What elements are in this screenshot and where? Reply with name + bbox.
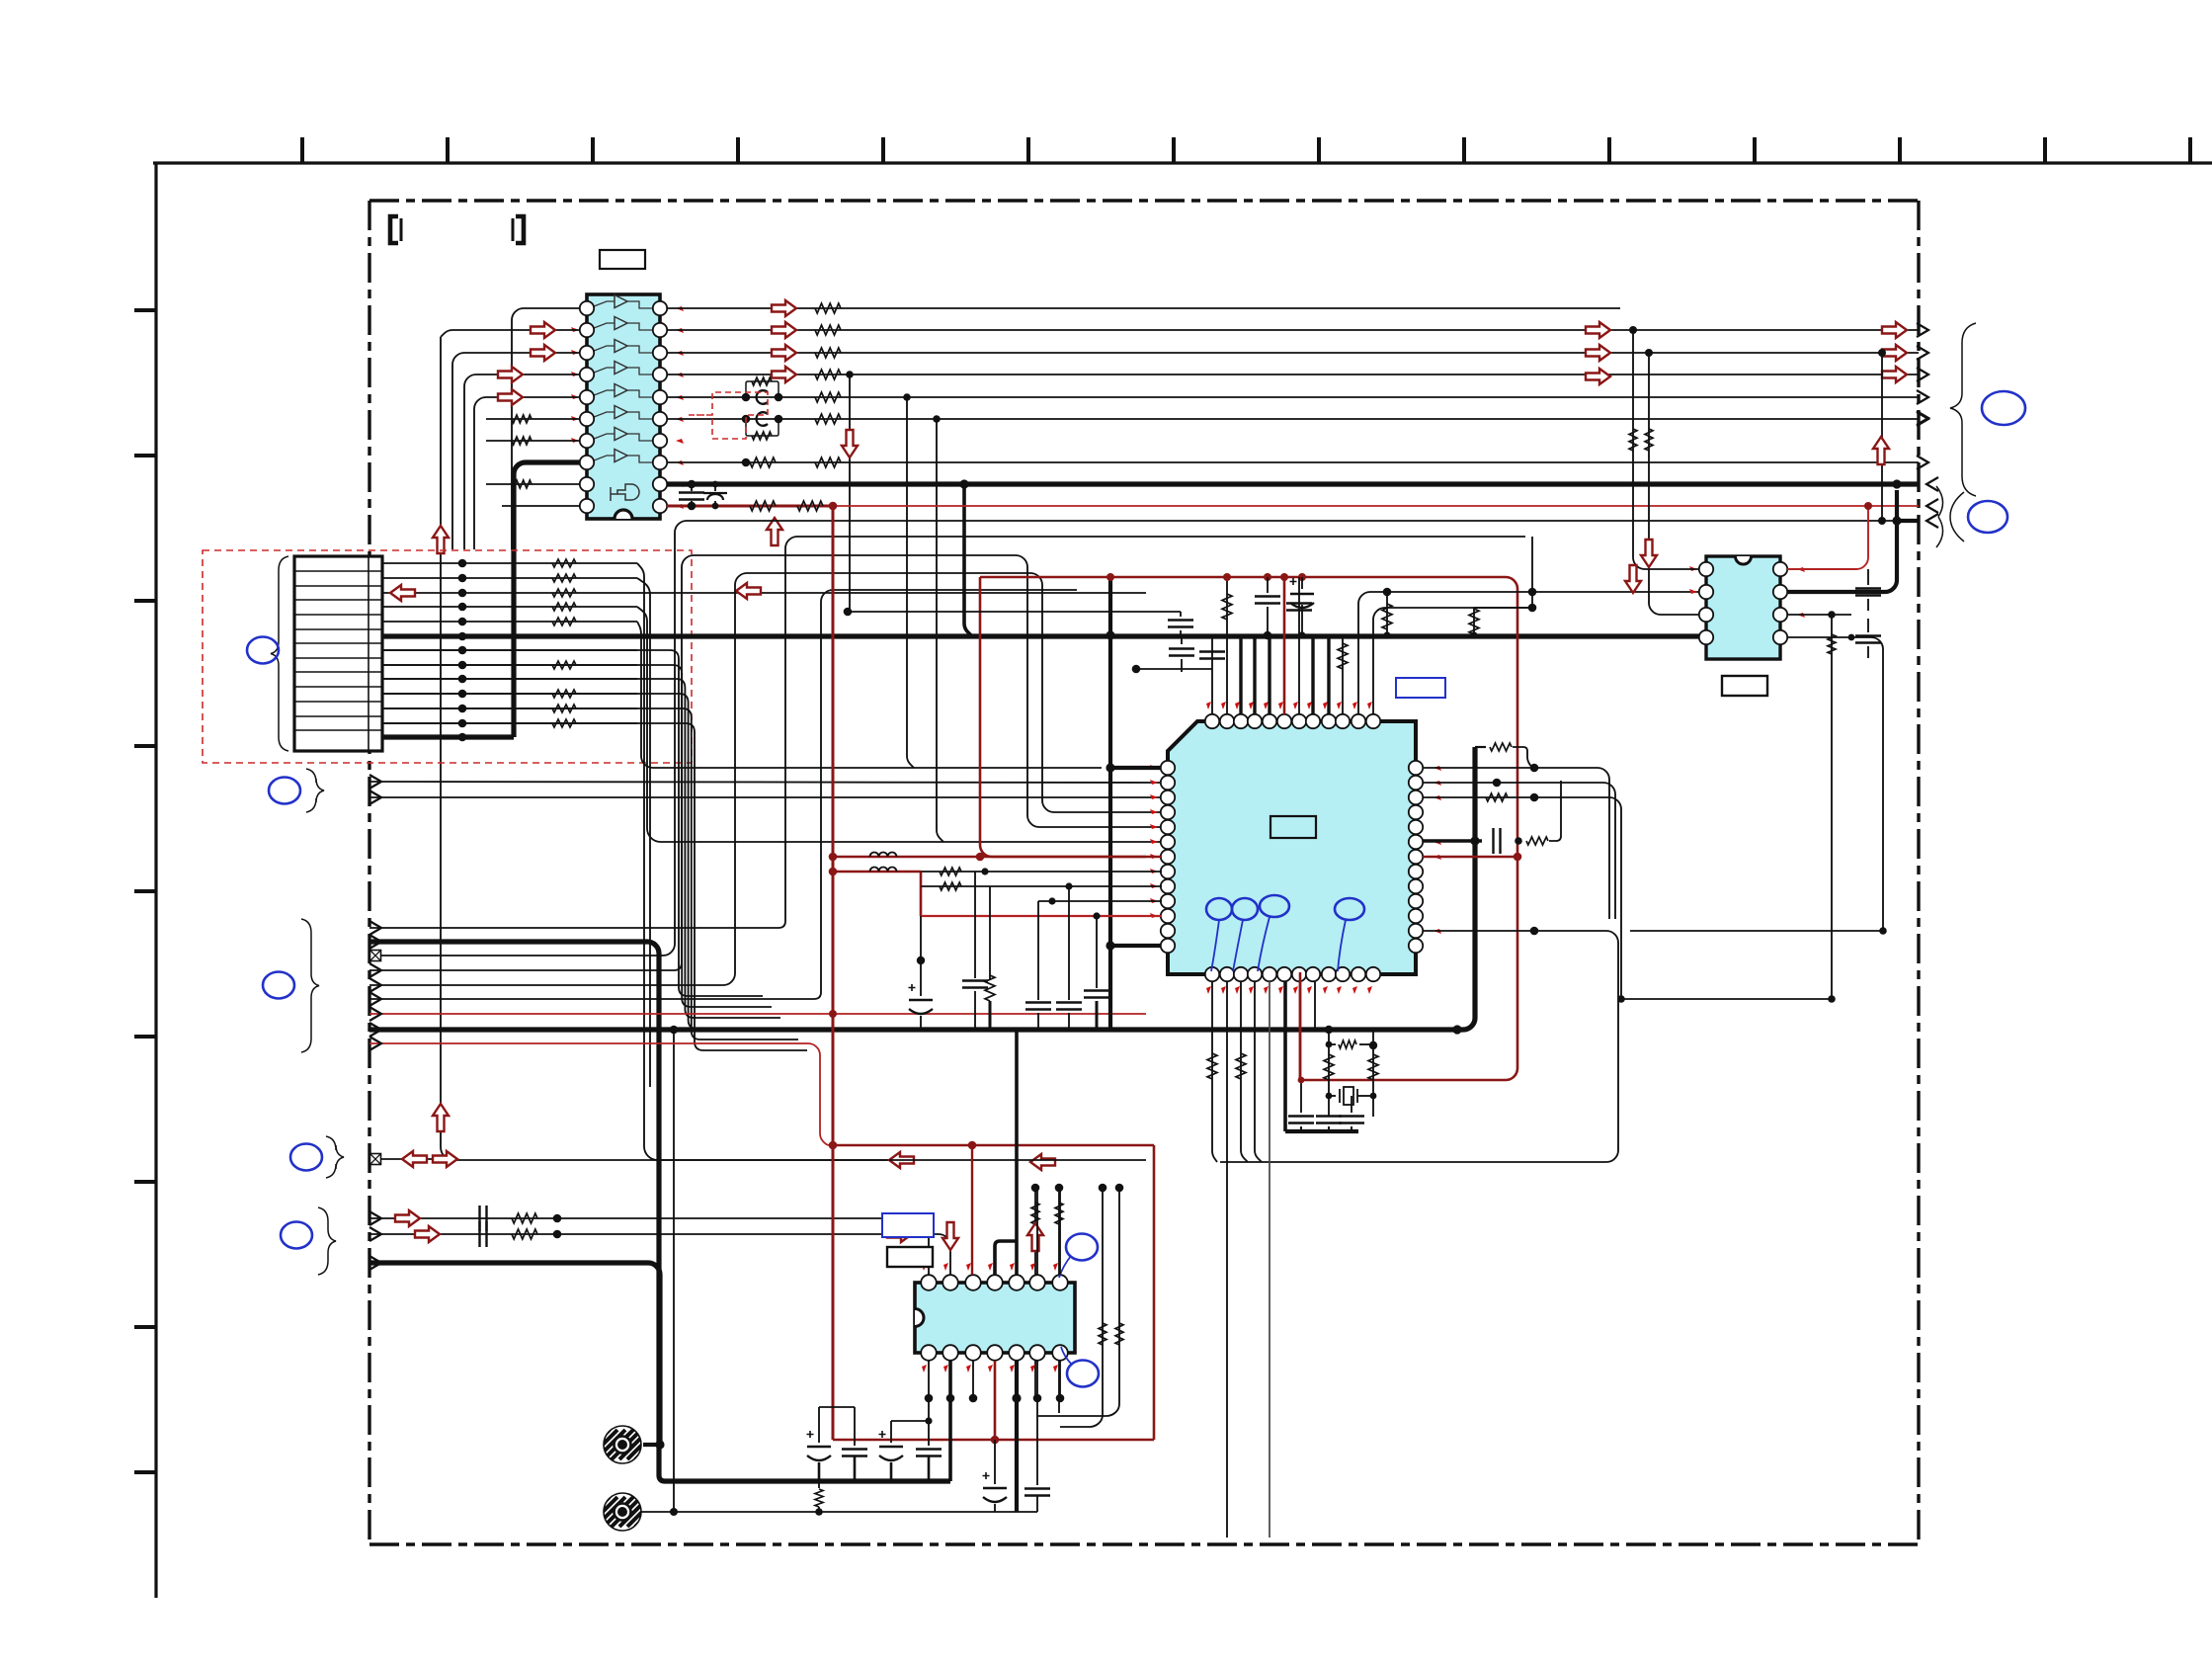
IC U4 body <box>1706 556 1780 659</box>
chevron g2 2 <box>369 935 381 949</box>
resistor bypass bot <box>746 419 778 436</box>
resistor r1249 <box>512 1229 537 1239</box>
wire t11 <box>1358 592 1699 714</box>
wire p9 black <box>921 885 1162 887</box>
wire res drop2 <box>1473 608 1475 635</box>
junction d1110 <box>1093 912 1100 919</box>
junction t1 <box>1132 665 1141 674</box>
signal arrow x1173 r <box>433 1151 457 1167</box>
IC U3 value box <box>887 1247 933 1267</box>
signal arrow conn3 <box>390 585 415 601</box>
signal arrow o1 <box>772 300 796 316</box>
wire thick x1493 top <box>1472 747 1477 841</box>
resistor b3 <box>1236 1053 1246 1079</box>
wire t8 thick <box>1311 635 1314 714</box>
wire row334 <box>667 329 1919 331</box>
wire red to pin3T <box>971 1145 973 1275</box>
ruler left tick 6 <box>134 1035 156 1039</box>
capacitor c1233 <box>480 1206 487 1231</box>
chevron row334 <box>1917 323 1928 337</box>
wire thick pin8 input <box>514 462 580 737</box>
capacitor c490a <box>691 484 693 491</box>
IC U1 notch <box>614 510 632 519</box>
bead red p8 <box>870 868 897 873</box>
IC U3 label ellipse <box>1066 1234 1098 1261</box>
junction red1026 <box>829 1010 837 1018</box>
capacitor t7 <box>1286 604 1312 611</box>
junction conn <box>458 675 467 684</box>
border frame left <box>368 201 370 1544</box>
resistor in r6 <box>512 415 532 423</box>
capacitor t1 <box>1199 652 1225 659</box>
chevron g2 5 <box>369 978 381 992</box>
xbox row1173 <box>370 1154 381 1165</box>
junction u3 <box>1036 1187 1038 1189</box>
signal arrow o2 <box>772 322 796 338</box>
wire conn drop <box>382 708 798 1040</box>
wire drop 860 <box>849 374 851 612</box>
capacitor cc4 <box>928 1421 930 1446</box>
junction cc1050 <box>1036 1511 1038 1513</box>
wire u3 b5 thick <box>1015 1361 1019 1512</box>
wire t6 red <box>1283 577 1286 714</box>
junction 1042 <box>670 1026 679 1035</box>
wire u3 t6 <box>1036 1188 1038 1275</box>
capacitor ce3 <box>890 1421 892 1443</box>
signal arrow in3 <box>498 367 523 382</box>
resistor xr2 <box>1368 1054 1378 1080</box>
chevron row490 <box>1926 477 1938 491</box>
bead red p7 <box>870 853 897 858</box>
brace 5 <box>318 1207 336 1275</box>
capacitor c1195 <box>1180 612 1182 617</box>
wire v1551 <box>1531 537 1533 608</box>
wire row490 thick <box>667 481 1919 486</box>
junction p6R <box>1515 837 1522 845</box>
cable label ellipse R1 <box>1982 391 2025 425</box>
resistor conn <box>552 719 576 727</box>
junction xt4 <box>1370 1041 1377 1048</box>
resistor rv1002 <box>985 975 995 1001</box>
ruler top tick 12 <box>1898 137 1902 163</box>
junction red3 <box>829 868 838 876</box>
resistor o2 <box>815 325 841 335</box>
junction 1042b <box>1452 1025 1461 1034</box>
cable label ellipse R2 <box>1968 501 2007 533</box>
junction t11a <box>1383 588 1392 597</box>
junction xt6 <box>1370 1093 1377 1100</box>
IC U2 value box <box>1270 816 1316 838</box>
wire red p7 ferrite <box>833 856 1162 859</box>
junction frag942 <box>1879 927 1887 935</box>
resistor o1 <box>815 303 841 313</box>
wire thick x1124 <box>1108 577 1112 1030</box>
junction rail <box>1264 573 1271 581</box>
wire bus vertical x446b <box>441 337 889 1160</box>
ruler top tick 1 <box>300 137 304 163</box>
resistor conn <box>552 589 576 597</box>
junction p3R <box>1530 793 1539 802</box>
wire red p11 <box>921 915 1162 917</box>
ruler top tick 2 <box>446 137 450 163</box>
adjust mark 2 <box>1232 898 1258 920</box>
junction v1048 <box>1031 1184 1040 1193</box>
ruler left tick 2 <box>134 454 156 458</box>
brace 3 <box>301 919 319 1052</box>
wire red loop bottom <box>833 1439 1154 1442</box>
wire t12 <box>1373 608 1532 714</box>
resistor p9 <box>940 882 961 890</box>
junction t6 <box>1280 573 1288 581</box>
chevron g2 9 <box>369 1037 381 1050</box>
wire res drop1 <box>1386 592 1388 635</box>
ruler top line <box>153 161 2212 164</box>
signal arrow b379 <box>1882 367 1907 382</box>
title bracket left <box>390 216 398 243</box>
junction conn <box>458 705 467 713</box>
IC U2 ref box <box>1396 678 1445 698</box>
resistor conn <box>552 574 576 582</box>
junction conn <box>458 719 467 728</box>
IC U4 pin marks <box>1689 566 1805 618</box>
wire b2 <box>1226 981 1228 1538</box>
wire motor2 row <box>641 1511 1037 1513</box>
wire drop 1110 <box>1096 916 1098 988</box>
wire t1 tap <box>1136 668 1212 670</box>
wire row512 red <box>667 505 833 508</box>
IC U3 pin marks <box>922 1263 1058 1373</box>
IC U1 internal gate <box>611 484 639 501</box>
resistor v1116 <box>1099 1323 1106 1345</box>
wire xtal2 <box>1372 1045 1374 1117</box>
junction u4 p4 <box>1848 634 1855 641</box>
signal arrow up2 <box>767 518 782 545</box>
wire drop 918 <box>907 397 914 768</box>
connector label ellipse 4 <box>290 1144 322 1171</box>
junction x1124 <box>1106 630 1114 639</box>
chevron b3 <box>369 1256 381 1270</box>
wire motor1 stub <box>643 1443 660 1447</box>
connector CN1 dividers <box>294 556 382 730</box>
junction v1133 <box>1115 1184 1124 1193</box>
capacitor xc2 <box>1316 1117 1342 1123</box>
wire v1116 <box>1060 1188 1103 1427</box>
adjust mark 3 <box>1260 895 1289 917</box>
junction p7R <box>1514 853 1522 862</box>
wire t10 <box>1342 635 1344 714</box>
wire u3 b2 thick <box>948 1361 952 1481</box>
IC U2 pin marks <box>1150 702 1441 994</box>
ruler top tick 6 <box>1026 137 1030 163</box>
junction rail b <box>1383 631 1390 638</box>
wire p6R ext <box>1549 781 1561 841</box>
wire u3 b7 <box>1059 1361 1061 1398</box>
wire cap link b <box>891 1420 929 1422</box>
junction p9 <box>1065 882 1072 889</box>
wire red drop to pin <box>1299 972 1302 1080</box>
junction p1 <box>1106 763 1114 772</box>
junction <box>712 481 719 488</box>
junction rail <box>1264 631 1272 640</box>
junction <box>553 1214 562 1223</box>
wire bus vertical x446 <box>441 330 580 337</box>
signal arrow b334 <box>1882 322 1907 338</box>
wire row1042 thick <box>369 841 1475 1030</box>
border frame top <box>369 199 1919 202</box>
resistor in r9 <box>512 480 532 488</box>
ruler top tick 7 <box>1172 137 1176 163</box>
junction m1 <box>655 1440 664 1449</box>
wire conn drop <box>382 694 789 1029</box>
capacitor cc2 <box>854 1407 856 1446</box>
signal arrow up1 <box>433 526 449 553</box>
wire row402 <box>667 396 1919 398</box>
ground bus xtal <box>1285 1129 1358 1133</box>
IC U4 value box <box>1722 676 1767 696</box>
IC U3 notch <box>915 1309 924 1327</box>
junction p1R <box>1530 764 1539 773</box>
IC U1 value box <box>600 250 645 269</box>
junction row402 <box>903 393 911 401</box>
resistor conn <box>552 559 576 567</box>
signal arrow mid2 <box>1586 345 1610 361</box>
wire conn row thick <box>382 633 1706 638</box>
junction red b <box>991 1436 1000 1445</box>
IC U1 pins <box>580 301 667 513</box>
power dot <box>1106 573 1114 581</box>
wire t4 thick <box>1253 635 1256 714</box>
wire row1233 <box>369 1218 929 1275</box>
wire row791 <box>369 782 1162 783</box>
junction u3b7 <box>1056 1394 1065 1403</box>
junction <box>553 1230 562 1239</box>
junction row424 <box>933 415 941 423</box>
wire conn row <box>382 606 637 608</box>
wire buffer in5 <box>474 397 580 549</box>
wire thick pin1L <box>1110 766 1161 770</box>
wire conn drop <box>382 665 772 1007</box>
resistor xr1 <box>1324 1054 1334 1080</box>
wire red pin4B <box>994 1361 997 1440</box>
wire conn row <box>382 664 637 666</box>
capacitor c490b <box>714 484 716 491</box>
wire t7 <box>1298 577 1300 714</box>
resistor r468a <box>750 458 776 467</box>
signal arrow in2 <box>531 345 555 361</box>
wire p3R <box>1423 797 1621 999</box>
signal arrow up3 <box>433 1104 449 1131</box>
resistor branch 756 <box>1475 746 1486 748</box>
wire b7 red <box>1299 981 1302 1080</box>
junction red2 <box>976 853 985 862</box>
signal arrow d u4b <box>1641 540 1657 567</box>
wire row1011 frag <box>1621 998 1832 1000</box>
IC U3 label ellipse2 <box>1067 1361 1099 1387</box>
capacitor e932 <box>909 999 933 1002</box>
junction v1116 <box>1099 1184 1107 1193</box>
wire row1056 red <box>369 1043 833 1145</box>
brace 4 <box>326 1136 344 1178</box>
capacitor c1249 <box>480 1221 487 1247</box>
wire conn row <box>382 707 637 709</box>
IC U3 body <box>915 1283 1075 1353</box>
title bracket right <box>516 216 524 243</box>
wire row939 <box>369 537 1525 928</box>
junction clb <box>925 1417 932 1424</box>
wire v1905 <box>1881 353 1883 521</box>
wire b5 <box>1269 981 1270 1538</box>
wire u4 p2R thick <box>1787 490 1897 592</box>
junction p2R <box>1493 779 1502 788</box>
wire p2R <box>1423 783 1615 919</box>
wire u4 p1R red <box>1787 506 1868 569</box>
wire u3 t4 thick <box>995 1241 1017 1275</box>
signal arrow row1174 l <box>889 1152 914 1168</box>
junction <box>829 502 838 511</box>
wire u4 p3 drop <box>1831 615 1833 999</box>
ruler left tick 1 <box>134 308 156 312</box>
junction u4b <box>1645 349 1653 357</box>
junction conn <box>458 733 467 742</box>
capacitor xc3 <box>1339 1117 1364 1123</box>
junction m2 <box>670 1508 678 1516</box>
junction frag1011 <box>1617 995 1625 1003</box>
resistor bypass bot zig <box>752 432 772 440</box>
junction p8 <box>981 868 988 874</box>
wire red vert 932 <box>920 872 923 916</box>
chevron out423 <box>1917 411 1928 425</box>
junction <box>742 458 751 467</box>
junction t12b <box>1528 604 1537 613</box>
wire row967 <box>381 521 1919 956</box>
chevron b2 <box>369 1227 381 1241</box>
junction t11b <box>1528 588 1537 597</box>
wire conn row <box>382 649 637 651</box>
connector CN1 brace <box>271 556 288 751</box>
wire p10 drop <box>1037 901 1039 1000</box>
wire conn row <box>382 621 637 623</box>
signal arrow conn3b <box>736 583 761 599</box>
IC U1 buffer body <box>587 294 660 519</box>
wire row1278 thick <box>369 1263 660 1445</box>
junction <box>742 393 751 402</box>
junction row490d <box>959 479 968 488</box>
resistor rd1 <box>1382 604 1392 629</box>
wire xtal1 <box>1328 1030 1330 1117</box>
wire row1026 red <box>369 1013 1146 1015</box>
junction p3drop <box>1828 995 1836 1003</box>
wire conn row <box>382 678 637 680</box>
wire row807 <box>369 796 1162 798</box>
junction u3b5 <box>1012 1393 1021 1402</box>
dashed box beads <box>689 392 768 439</box>
bead L2 <box>757 412 768 426</box>
signal arrow d u4a <box>1625 565 1641 593</box>
wire p1R <box>1423 768 1609 919</box>
junction xt3 <box>1326 1041 1333 1048</box>
chevron row512 <box>1926 499 1938 513</box>
signal arrow in1 <box>531 322 555 338</box>
signal arrow b357 <box>1882 345 1907 361</box>
wire b4 <box>1255 981 1262 1162</box>
resistor r512a <box>750 501 776 511</box>
wire row424 <box>667 418 1919 420</box>
junction u3b6 <box>1033 1394 1042 1403</box>
wire conn drop <box>382 679 780 1018</box>
resistor r512b <box>797 501 823 511</box>
wire red p8 stub <box>833 871 921 874</box>
wire u4 v1669 <box>1649 353 1699 615</box>
resistor t2 <box>1222 594 1232 620</box>
resistor conn <box>552 603 576 611</box>
junction p13 <box>1106 941 1114 950</box>
wire row312 <box>667 307 1620 309</box>
ruler left tick 7 <box>134 1180 156 1184</box>
wire u3 t5 thick <box>1015 1030 1019 1275</box>
capacitor c1082 <box>1056 1003 1082 1010</box>
chevron in791 <box>369 775 381 789</box>
junction u3b3 <box>969 1394 978 1403</box>
wire buffer in3 <box>452 353 580 549</box>
junction conn <box>458 646 467 655</box>
crystal X1 <box>1329 1095 1336 1097</box>
IC U4 pins <box>1699 562 1787 644</box>
connector CN1 body <box>294 556 382 751</box>
adjust mark 4 <box>1335 898 1364 920</box>
wire t2 <box>1226 577 1228 714</box>
signal arrow o3 <box>772 345 796 361</box>
ruler top tick 4 <box>736 137 740 163</box>
capacitor xc1 <box>1288 1117 1314 1123</box>
adjust mark 1 <box>1206 898 1232 920</box>
resistor u4a <box>1629 429 1637 451</box>
ruler left tick 9 <box>134 1470 156 1474</box>
wire u3 b1 <box>928 1361 930 1421</box>
signal arrow down1 <box>842 430 858 458</box>
ruler left tick 4 <box>134 744 156 748</box>
junction <box>775 393 783 402</box>
ruler top tick 13 <box>2043 137 2047 163</box>
junction conn <box>458 559 467 568</box>
resistor p3R <box>1486 793 1508 801</box>
wire row1174 ext <box>889 1159 1146 1161</box>
IC U1 pin marks <box>571 306 684 509</box>
chevron g2 6 <box>369 992 381 1006</box>
resistor u4b <box>1645 429 1653 451</box>
wire drop 948 <box>937 419 943 842</box>
capacitor c1110 <box>1084 991 1109 998</box>
junction u4a <box>1629 326 1637 334</box>
wire xc stubs <box>1300 1126 1302 1131</box>
junction u4 t <box>1892 479 1901 488</box>
wire red branch <box>980 577 1146 857</box>
resistor p6R <box>1526 837 1548 845</box>
resistor t10 <box>1338 643 1348 669</box>
ruler left tick 5 <box>134 889 156 893</box>
junction conn <box>458 661 467 670</box>
wire conn row13 thick <box>382 734 514 739</box>
wire b3 <box>1241 981 1248 1162</box>
signal arrow in4 <box>498 389 523 405</box>
capacitor rail1 <box>1267 577 1269 593</box>
wire tap 619 <box>848 611 1181 613</box>
junction u4 p3 <box>1828 611 1836 619</box>
junction <box>742 415 751 424</box>
signal arrow r1233 <box>395 1210 420 1226</box>
chevron g2 7 <box>369 1007 381 1021</box>
xbox row967 <box>370 951 381 961</box>
power rail red <box>980 577 1517 1080</box>
